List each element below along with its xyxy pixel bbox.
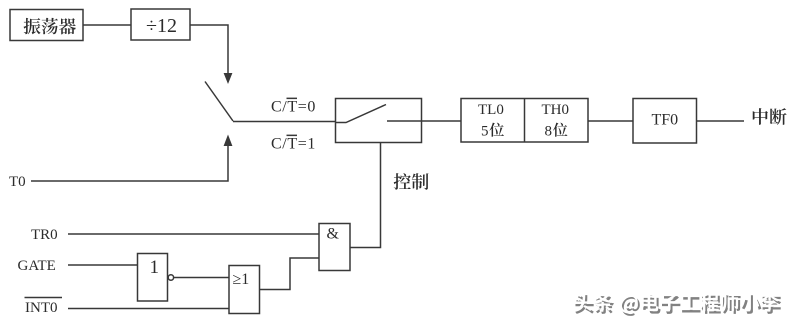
label 振荡器 oscillator — [24, 18, 76, 35]
watermark shadow 头条@电子工程师小李 — [575, 295, 781, 316]
svg-text:TL0: TL0 — [478, 102, 504, 118]
svg-text:TH0: TH0 — [542, 102, 570, 118]
svg-text:C/T=0: C/T=0 — [271, 99, 316, 116]
wire oscillator to divider — [83, 24, 131, 26]
label 位 of 5位 — [489, 123, 504, 137]
wire TH0 to TF0 — [588, 120, 633, 122]
overline over T of C/T=1 — [287, 135, 298, 137]
switch pole (diagonal) — [205, 82, 233, 122]
wire inverter to OR gate — [174, 277, 229, 279]
wire control box down to AND gate output — [350, 143, 381, 248]
TL0/TH0 register box — [461, 99, 588, 143]
svg-text:≥1: ≥1 — [233, 271, 250, 288]
watermark face 头条@电子工程师小李 — [573, 292, 779, 313]
TF0 flag box — [633, 99, 697, 144]
inverter box — [138, 254, 168, 302]
oscillator box 振荡器 — [10, 10, 83, 41]
svg-text:8: 8 — [545, 124, 553, 140]
label 控制 control — [394, 173, 429, 190]
label 中断 interrupt — [753, 108, 787, 125]
wire TR0 to AND gate — [68, 233, 319, 235]
INT0 overline — [25, 297, 63, 299]
arrowhead down into switch — [224, 73, 233, 84]
svg-text:1: 1 — [150, 257, 160, 278]
inverter output bubble — [168, 275, 173, 280]
divide-by-12 box — [131, 9, 190, 40]
svg-text:TF0: TF0 — [652, 112, 679, 129]
wire T0 up to switch — [31, 140, 228, 181]
overline over T of C/T=0 — [287, 98, 298, 100]
wire divider to switch (right then down) — [190, 25, 228, 73]
svg-text:÷12: ÷12 — [146, 15, 177, 37]
svg-text:5: 5 — [481, 124, 489, 140]
arrowhead up into switch (from T0) — [224, 135, 233, 147]
wire control box to TL0 — [422, 120, 462, 122]
wire switch to control box — [233, 121, 336, 123]
wire OR gate to AND gate (right, up, right) — [260, 258, 320, 290]
label 位 of 8位 — [553, 123, 568, 137]
TL0/TH0 divider — [524, 99, 526, 143]
svg-text:INT0: INT0 — [25, 300, 58, 316]
svg-text:C/T=1: C/T=1 — [271, 136, 316, 153]
wire TF0 to interrupt — [697, 120, 745, 122]
switch contact inside control box — [336, 105, 386, 123]
OR gate box — [229, 266, 260, 314]
wire GATE to inverter — [68, 264, 138, 266]
AND gate box — [319, 224, 350, 271]
svg-text:TR0: TR0 — [31, 227, 58, 243]
svg-text:T0: T0 — [9, 174, 26, 190]
control/mode box — [336, 99, 422, 143]
wire INT0 to OR gate — [68, 308, 229, 310]
svg-text:&: & — [327, 226, 340, 243]
svg-text:GATE: GATE — [18, 258, 56, 274]
